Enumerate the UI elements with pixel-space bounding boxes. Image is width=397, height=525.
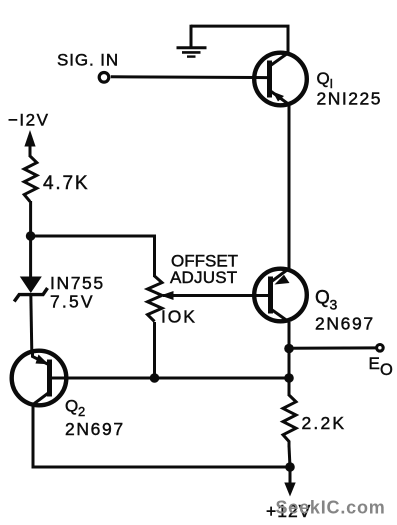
svg-text:7.5V: 7.5V (50, 292, 95, 312)
wire ground rail to Q1 collector (191, 26, 288, 53)
node junction dot base bus meets emitter line (284, 373, 294, 383)
svg-text:SIG. IN: SIG. IN (57, 51, 119, 70)
svg-text:IOK: IOK (161, 307, 197, 327)
node -12V supply arrow (24, 130, 35, 157)
resistor 2.2K (283, 395, 296, 447)
svg-text:4.7K: 4.7K (43, 173, 89, 194)
wire Q2 collector to bottom bus (33, 404, 290, 467)
svg-text:O: O (380, 361, 393, 379)
wire Q1 emitter to Q3 collector (288, 105, 291, 270)
node SIG. IN label (57, 51, 119, 70)
node bottom junction dot (285, 462, 295, 472)
zener diode 1N755 (14, 277, 47, 302)
svg-text:Q: Q (317, 69, 330, 88)
svg-text:−I2V: −I2V (8, 111, 49, 130)
resistor 4.7K (24, 156, 37, 202)
wire 4.7K to zener / node A junction (29, 201, 32, 278)
potentiometer 10K (148, 276, 163, 322)
node output junction dot (284, 344, 294, 354)
svg-text:Q: Q (315, 288, 330, 309)
svg-text:Q: Q (65, 397, 78, 416)
svg-text:IN755: IN755 (50, 273, 105, 293)
transistor Q2 reference label (65, 397, 85, 420)
transistor Q3 (254, 269, 307, 323)
svg-text:E: E (369, 354, 380, 373)
ground (177, 25, 207, 57)
node EO label (369, 354, 394, 379)
wire output node to EO terminal (289, 346, 376, 349)
transistor Q2 (12, 349, 67, 405)
potentiometer wiper arrow and wire to Q3 base (161, 291, 270, 300)
node +12V supply arrow (284, 467, 295, 497)
wire 2.2K to bottom node (289, 446, 290, 467)
transistor Q1 reference label (317, 69, 334, 91)
node EO output terminal (377, 345, 384, 352)
zener diode 1N755 value labels (50, 273, 105, 312)
svg-text:2NI225: 2NI225 (317, 89, 382, 109)
wire 10K pot bottom to base bus (153, 322, 156, 378)
wire Q2 base bus to Q3 emitter node (51, 377, 289, 380)
transistor Q3 reference label (315, 288, 338, 313)
node SIG. IN input terminal (99, 73, 109, 83)
potentiometer label OFFSET ADJUST (170, 251, 238, 286)
node junction dot pot bottom on base bus (150, 373, 160, 383)
wire Q3 emitter down through output node to 2.2K (288, 322, 291, 396)
node A junction dot (26, 231, 36, 241)
transistor Q1 (254, 53, 307, 106)
svg-text:3: 3 (330, 297, 338, 313)
wire node A to 10K pot top (31, 236, 155, 277)
svg-text:2N697: 2N697 (315, 314, 375, 334)
svg-text:2: 2 (78, 404, 85, 419)
svg-text:2.2K: 2.2K (302, 413, 347, 433)
svg-text:SeekIC.com: SeekIC.com (276, 498, 386, 518)
svg-text:ADJUST: ADJUST (170, 268, 237, 287)
svg-text:2N697: 2N697 (65, 419, 125, 439)
wire zener to Q2 emitter (31, 293, 32, 352)
wire SIG. IN to Q1 base (111, 75, 268, 79)
